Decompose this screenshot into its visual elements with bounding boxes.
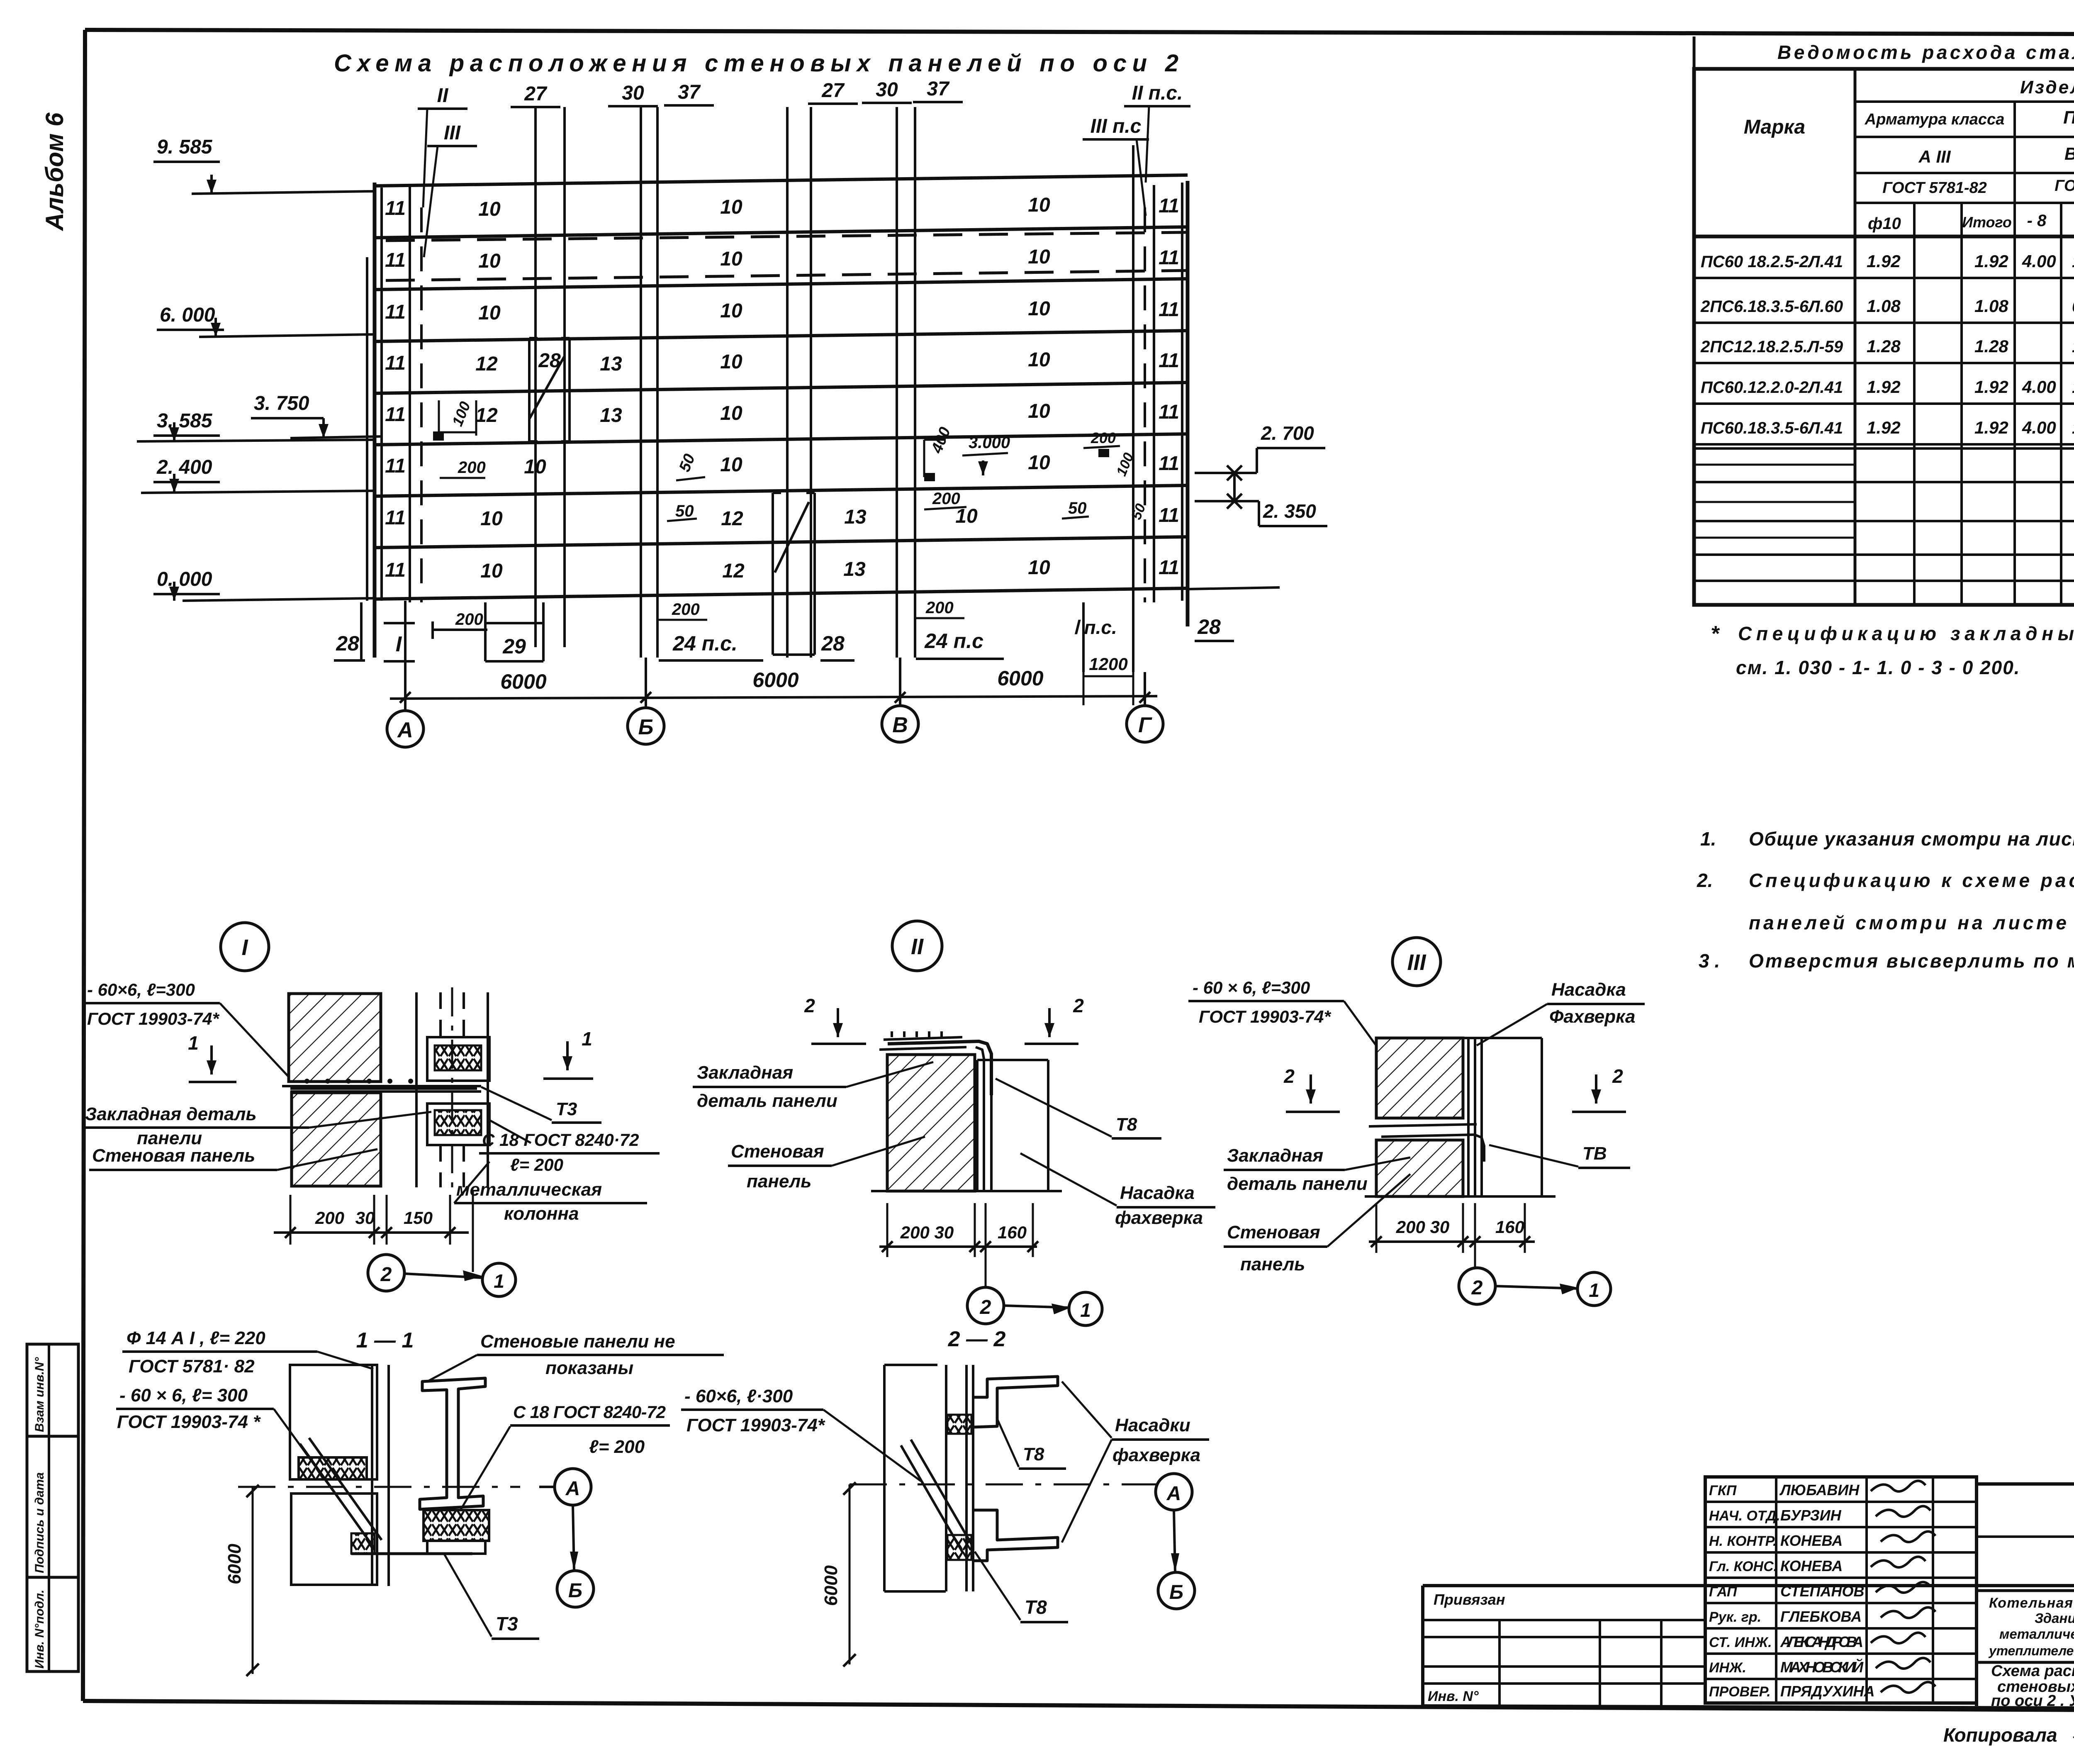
svg-text:Привязан: Привязан [1434, 1591, 1505, 1608]
svg-text:2 — 2: 2 — 2 [948, 1327, 1006, 1351]
svg-text:ГАП: ГАП [1709, 1584, 1738, 1600]
svg-text:1.28: 1.28 [1974, 336, 2008, 356]
axis В line+circle [899, 658, 901, 705]
svg-text:10: 10 [478, 302, 501, 324]
svg-text:37: 37 [927, 78, 950, 100]
node I circle [221, 923, 269, 971]
section 1-1 axis bubble A [555, 1469, 591, 1505]
svg-text:28: 28 [821, 632, 845, 655]
svg-text:100: 100 [448, 399, 474, 429]
axis Г line+circle [1144, 672, 1146, 705]
svg-text:11: 11 [1159, 557, 1179, 579]
node I dimension 200 30 150 [274, 1231, 469, 1234]
node III circle [1392, 938, 1441, 986]
svg-text:ГОСТ 5781-82: ГОСТ 5781-82 [1882, 179, 1987, 197]
table outer frame [1694, 69, 2074, 605]
node II wall panel (hatched) [887, 1055, 975, 1191]
svg-text:28: 28 [538, 350, 561, 372]
svg-text:200: 200 [458, 458, 486, 477]
svg-text:200: 200 [925, 599, 954, 617]
svg-text:10: 10 [524, 456, 546, 478]
svg-text:деталь панели: деталь панели [697, 1091, 837, 1111]
svg-text:13: 13 [843, 558, 866, 580]
svg-text:Т3: Т3 [496, 1613, 518, 1635]
svg-text:6000: 6000 [224, 1544, 245, 1584]
svg-text:ГОСТ 19903-74*: ГОСТ 19903-74* [686, 1415, 825, 1435]
svg-text:2: 2 [1471, 1277, 1483, 1299]
svg-text:10: 10 [720, 454, 742, 476]
svg-text:1.28: 1.28 [1867, 336, 1901, 356]
section 1-1 T3 channel with insulation [424, 1510, 489, 1541]
section 2-2 lower bracket T8 [973, 1510, 1058, 1561]
svg-text:АЛЕКСАНДРОВА: АЛЕКСАНДРОВА [1780, 1633, 1863, 1650]
svg-text:200: 200 [1091, 429, 1116, 446]
svg-text:3 .: 3 . [1699, 950, 1720, 972]
node I lower wall panel (hatched) [292, 1093, 381, 1186]
svg-text:1.12: 1.12 [2072, 251, 2074, 271]
svg-text:панель: панель [747, 1171, 811, 1191]
svg-text:Инв. N°подл.: Инв. N°подл. [33, 1590, 46, 1669]
section 2-2 column lines [945, 1365, 947, 1591]
svg-text:I: I [396, 632, 402, 656]
title block left cells (Привязан) [1423, 1619, 1705, 1621]
section 2-2 axis bubble A [1156, 1474, 1192, 1510]
svg-text:Фахверка: Фахверка [1549, 1006, 1635, 1027]
svg-text:10: 10 [478, 250, 501, 272]
svg-text:Прокат: Прокат [2063, 107, 2074, 128]
leader III p.s. [1137, 139, 1146, 216]
svg-text:Т3: Т3 [556, 1099, 577, 1119]
axis В column pair [896, 107, 898, 658]
svg-text:13: 13 [600, 404, 622, 426]
svg-text:ГОСТ 19903-74*: ГОСТ 19903-74* [87, 1009, 219, 1028]
node III grid bubbles 2-1 [1474, 1257, 1476, 1268]
svg-text:Б: Б [638, 715, 654, 739]
ground line 0.000 extended right [1188, 587, 1280, 589]
svg-text:1.92: 1.92 [1867, 377, 1901, 397]
svg-text:12: 12 [722, 560, 745, 582]
svg-text:Схема расположения стеновы: Схема расположения стеновых панелей по о… [334, 50, 1180, 77]
svg-text:- 60 × 6, ℓ=300: - 60 × 6, ℓ=300 [1193, 978, 1310, 997]
fachwerk column dashed line (right, node II/III p.s.) [1144, 207, 1146, 602]
svg-text:11: 11 [1159, 195, 1179, 217]
svg-text:фахверка: фахверка [1112, 1445, 1200, 1465]
svg-text:ГОСТ 5781· 82: ГОСТ 5781· 82 [129, 1356, 255, 1377]
svg-text:ПС60.12.2.0-2Л.41: ПС60.12.2.0-2Л.41 [1701, 378, 1843, 397]
vertical edges and column lines of panel layout [373, 183, 377, 658]
node II embed plate on top [879, 1047, 966, 1050]
svg-text:10: 10 [1028, 298, 1050, 320]
svg-text:Б: Б [1169, 1581, 1183, 1603]
svg-text:10: 10 [720, 402, 742, 424]
node II circle [892, 921, 942, 971]
svg-text:Изделия: Изделия [2020, 77, 2074, 97]
svg-text:4.00: 4.00 [2022, 377, 2056, 397]
svg-text:200: 200 [672, 600, 700, 619]
middle column pair (axis 30/37) [786, 107, 789, 658]
svg-text:2: 2 [980, 1296, 991, 1318]
leader II p.s. [1146, 106, 1149, 183]
svg-text:150: 150 [404, 1208, 433, 1228]
svg-text:Рук. гр.: Рук. гр. [1709, 1609, 1761, 1625]
section 1-1 centerline [238, 1486, 520, 1488]
fachwerk column dashed line (left, node II/III) [420, 207, 423, 602]
svg-text:Стеновая: Стеновая [1227, 1222, 1320, 1243]
svg-text:2. 700: 2. 700 [1261, 422, 1314, 444]
svg-text:Гл. КОНС.: Гл. КОНС. [1709, 1559, 1777, 1574]
svg-text:Марка: Марка [1744, 116, 1805, 138]
svg-text:27: 27 [821, 80, 845, 102]
svg-text:Стеновые панели не: Стеновые панели не [480, 1331, 675, 1352]
svg-text:10: 10 [1028, 400, 1050, 422]
svg-text:10: 10 [1028, 246, 1050, 268]
svg-text:6. 000: 6. 000 [160, 304, 215, 326]
svg-text:Схема расположения: Схема расположения [1991, 1662, 2074, 1680]
svg-text:13: 13 [844, 506, 867, 528]
section 2-2 upper bracket T8 [973, 1377, 1058, 1427]
node III lower wall panel (hatched) [1376, 1140, 1463, 1196]
svg-text:КОНЕВА: КОНЕВА [1780, 1532, 1843, 1549]
svg-text:Альбом 6: Альбом 6 [41, 112, 68, 231]
svg-text:0. 000: 0. 000 [157, 568, 212, 590]
svg-text:ПС60.18.3.5-6Л.41: ПС60.18.3.5-6Л.41 [1701, 419, 1843, 437]
svg-text:Закладная: Закладная [1227, 1145, 1323, 1166]
svg-text:12: 12 [475, 353, 498, 375]
svg-text:6000: 6000 [500, 670, 546, 693]
svg-text:11: 11 [385, 249, 406, 271]
svg-text:показаны: показаны [545, 1358, 633, 1378]
svg-text:2. 350: 2. 350 [1263, 500, 1316, 522]
svg-text:2: 2 [1612, 1065, 1623, 1087]
node II grid bubbles 2-1 [985, 1261, 987, 1287]
svg-text:I: I [241, 935, 248, 960]
svg-text:2.: 2. [1697, 870, 1713, 891]
left margin stamp box [27, 1344, 78, 1671]
node I column centerline [451, 987, 453, 1191]
svg-text:1.92: 1.92 [1974, 251, 2008, 271]
svg-text:Отверстия высверлить по: Отверстия высверлить по месту. [1749, 950, 2074, 972]
svg-text:1.12: 1.12 [2072, 336, 2074, 356]
svg-text:24 п.с: 24 п.с [924, 629, 983, 653]
node I anchor rod [290, 1087, 477, 1090]
svg-text:11: 11 [385, 352, 406, 374]
svg-text:СТЕПАНОВ: СТЕПАНОВ [1780, 1583, 1865, 1600]
svg-text:4.00: 4.00 [2022, 418, 2056, 437]
svg-text:200: 200 [932, 490, 960, 508]
svg-text:В: В [892, 713, 908, 737]
section 1-1 anchor diagonal rod [300, 1438, 382, 1549]
section 1-1 column flange lines [371, 1365, 373, 1586]
svg-text:1.92: 1.92 [1974, 418, 2008, 437]
svg-text:3. 750: 3. 750 [254, 392, 309, 414]
svg-text:А III: А III [1918, 147, 1951, 166]
svg-text:2: 2 [1283, 1065, 1295, 1087]
sheet border frame [85, 30, 2074, 35]
svg-text:ГОСТ 19903-74 *: ГОСТ 19903-74 * [117, 1412, 261, 1432]
svg-text:12: 12 [475, 404, 498, 426]
node I centerline down [472, 1191, 474, 1265]
svg-text:С 18 ГОСТ 8240·72: С 18 ГОСТ 8240·72 [482, 1130, 639, 1150]
svg-text:1.: 1. [1700, 828, 1716, 850]
table header horizontal lines [1855, 100, 2074, 103]
svg-text:11: 11 [1159, 247, 1179, 269]
svg-text:37: 37 [678, 81, 701, 103]
svg-text:200 30: 200 30 [1396, 1217, 1449, 1237]
svg-text:30: 30 [876, 79, 898, 101]
svg-text:В ст 3 Кп 2: В ст 3 Кп 2 [2064, 144, 2074, 163]
svg-text:Стеновая панель: Стеновая панель [92, 1145, 255, 1166]
svg-text:Н. КОНТР.: Н. КОНТР. [1709, 1533, 1777, 1549]
svg-text:1.08: 1.08 [1974, 296, 2008, 316]
svg-text:11: 11 [385, 404, 406, 426]
svg-text:10: 10 [478, 198, 501, 220]
svg-text:Общие указания смотри на: Общие указания смотри на листе 29. [1749, 828, 2074, 850]
svg-text:III: III [1407, 950, 1426, 975]
svg-text:13: 13 [600, 353, 622, 375]
node I embed plate seam [282, 1085, 481, 1087]
svg-text:2: 2 [380, 1264, 392, 1286]
svg-text:10: 10 [720, 196, 742, 218]
section 1-1 axis bubble Б [557, 1571, 594, 1607]
table data rows [1694, 277, 2074, 279]
svg-text:200: 200 [315, 1208, 344, 1228]
svg-text:панелей смотри на листе: панелей смотри на листе 29 . [1749, 912, 2074, 933]
svg-text:1: 1 [582, 1028, 592, 1050]
svg-text:2. 400: 2. 400 [156, 456, 212, 478]
svg-text:1.92: 1.92 [1974, 377, 2008, 397]
svg-text:Насадка: Насадка [1120, 1183, 1195, 1203]
svg-text:- 60 × 6, ℓ= 300: - 60 × 6, ℓ= 300 [119, 1385, 248, 1406]
leader II to column [423, 109, 427, 207]
section 1-1 lower anchor plate [351, 1552, 472, 1555]
table empty rows [1694, 447, 2074, 450]
svg-text:МАХНОВСКИЙ: МАХНОВСКИЙ [1780, 1658, 1864, 1676]
svg-text:ГОСТ 19903-74*: ГОСТ 19903-74* [1199, 1007, 1331, 1026]
svg-text:ГКП: ГКП [1709, 1483, 1737, 1498]
svg-text:Ф 14 А I , ℓ= 220: Ф 14 А I , ℓ= 220 [127, 1328, 265, 1348]
section 2-2 axis bubble Б [1158, 1572, 1195, 1609]
svg-text:Т8: Т8 [1023, 1444, 1044, 1464]
axis Б line+circle [645, 658, 647, 708]
node II dimensions 200 30 160 [879, 1245, 1037, 1248]
svg-text:Т8: Т8 [1116, 1114, 1137, 1135]
svg-text:6000: 6000 [752, 668, 798, 692]
column pair line 27 (left) [534, 107, 537, 647]
svg-text:Закладная: Закладная [697, 1062, 793, 1083]
svg-text:металлических конструкций с: металлических конструкций с [1999, 1626, 2074, 1642]
svg-text:10: 10 [480, 560, 503, 582]
svg-text:2ПС12.18.2.5.Л-59: 2ПС12.18.2.5.Л-59 [1700, 338, 1843, 356]
door opening rows 4-5 [528, 338, 531, 441]
svg-text:12: 12 [721, 508, 743, 530]
svg-text:10: 10 [720, 351, 742, 373]
title block right cells [1977, 1482, 2074, 1486]
svg-text:КОНЕВА: КОНЕВА [1780, 1557, 1843, 1574]
svg-text:10: 10 [480, 508, 503, 530]
node I metal column [415, 992, 418, 1187]
axis А line+circle [404, 601, 407, 710]
svg-text:II: II [911, 934, 924, 959]
node III upper wall panel (hatched) [1376, 1038, 1463, 1118]
svg-text:по оси 2 . Узлы I ÷ III: по оси 2 . Узлы I ÷ III [1991, 1692, 2074, 1710]
svg-text:10: 10 [1028, 557, 1050, 579]
svg-text:3. 585: 3. 585 [157, 410, 213, 432]
svg-text:30: 30 [355, 1208, 375, 1228]
svg-text:28: 28 [336, 632, 359, 655]
section 1-1 fachwerk I-beam above [420, 1378, 485, 1509]
crane/girt dashed line upper [386, 232, 1188, 241]
svg-text:10: 10 [1028, 349, 1050, 371]
svg-text:1200: 1200 [1089, 654, 1127, 674]
svg-text:колонна: колонна [504, 1204, 579, 1224]
svg-text:1: 1 [1080, 1299, 1091, 1321]
svg-text:Ведомость расхода стали на зак: Ведомость расхода стали на закладные изд… [1777, 41, 2074, 63]
svg-text:Т8: Т8 [1025, 1596, 1047, 1618]
node III fachwerk column lines [1467, 1038, 1470, 1196]
svg-text:ЛЮБАВИН: ЛЮБАВИН [1779, 1481, 1860, 1498]
svg-text:ТВ: ТВ [1582, 1143, 1607, 1164]
svg-text:ф10: ф10 [1868, 214, 1901, 233]
svg-text:3.000: 3.000 [969, 434, 1010, 452]
svg-text:1.12: 1.12 [2072, 418, 2074, 437]
title block outer [1423, 1584, 2074, 1587]
svg-text:11: 11 [1159, 299, 1179, 321]
panel layout: horizontal row lines [375, 175, 1188, 186]
svg-text:Закладная деталь: Закладная деталь [85, 1104, 257, 1124]
svg-text:11: 11 [1159, 350, 1179, 372]
svg-text:Г: Г [1138, 713, 1152, 737]
svg-text:1.12: 1.12 [2072, 377, 2074, 397]
svg-text:Копировала: Копировала [1943, 1724, 2057, 1746]
svg-text:ГОСТ 19903-74*: ГОСТ 19903-74* [2055, 177, 2074, 195]
svg-text:11: 11 [385, 301, 406, 323]
svg-text:Здание из легких: Здание из легких [2035, 1611, 2074, 1626]
svg-text:Котельная с 4 котлами ДЕ-10-14: Котельная с 4 котлами ДЕ-10-14ГМ [1989, 1595, 2074, 1611]
svg-text:11: 11 [385, 455, 406, 477]
svg-text:Ⅰ п.с.: Ⅰ п.с. [1073, 616, 1117, 638]
svg-text:- 8: - 8 [2027, 212, 2047, 230]
svg-text:III п.с: III п.с [1091, 115, 1142, 137]
svg-text:А: А [1166, 1483, 1181, 1505]
svg-text:11: 11 [385, 507, 406, 529]
svg-text:10: 10 [720, 248, 742, 270]
svg-text:200 30: 200 30 [900, 1223, 954, 1242]
svg-text:Инв. N°: Инв. N° [1428, 1688, 1479, 1704]
svg-text:Насадка: Насадка [1551, 979, 1626, 1000]
section 2-2 panel edge line [883, 1365, 886, 1591]
svg-text:деталь панели: деталь панели [1227, 1174, 1368, 1194]
svg-text:6000: 6000 [821, 1565, 841, 1606]
svg-text:1.92: 1.92 [1867, 251, 1901, 271]
svg-text:Стеновая: Стеновая [731, 1141, 824, 1162]
leader III to column [424, 146, 438, 257]
table header vertical lines [1854, 69, 1857, 605]
section 1-1 upper anchor x-box [299, 1457, 367, 1479]
svg-text:27: 27 [524, 83, 548, 105]
section 1-1 lower panel outline [291, 1494, 377, 1585]
svg-text:0.56: 0.56 [2072, 296, 2074, 316]
svg-text:ℓ= 200: ℓ= 200 [510, 1155, 563, 1174]
svg-text:Подпись и дата: Подпись и дата [33, 1472, 46, 1573]
svg-text:1.92: 1.92 [1867, 418, 1901, 437]
signature table [1705, 1477, 1977, 1703]
svg-text:III: III [444, 122, 461, 144]
svg-text:Спецификацию закладных изде: Спецификацию закладных изделий на одну п… [1738, 623, 2074, 644]
svg-text:10: 10 [1028, 452, 1050, 474]
svg-text:11: 11 [385, 559, 406, 581]
svg-text:ПС60 18.2.5-2Л.41: ПС60 18.2.5-2Л.41 [1701, 253, 1843, 271]
node I upper wall panel (hatched) [289, 994, 381, 1082]
svg-text:11: 11 [1159, 453, 1179, 475]
svg-text:*: * [1711, 622, 1720, 646]
node III dimensions 200 30 160 [1369, 1240, 1535, 1243]
svg-text:2: 2 [804, 995, 815, 1016]
axis Б column pair [640, 107, 642, 658]
svg-text:утеплителем из минераловатных: утеплителем из минераловатных плит [1988, 1643, 2074, 1658]
svg-text:4.00: 4.00 [2022, 251, 2056, 271]
svg-text:II: II [437, 85, 449, 107]
svg-text:см. 1. 030 - 1- 1. 0 - 3 -: см. 1. 030 - 1- 1. 0 - 3 - 0 200. [1736, 657, 2020, 678]
svg-text:металлическая: металлическая [456, 1179, 602, 1200]
svg-text:28: 28 [1197, 615, 1221, 638]
svg-text:1: 1 [494, 1270, 504, 1292]
svg-text:НАЧ. ОТД.: НАЧ. ОТД. [1709, 1508, 1780, 1524]
svg-text:Насадки: Насадки [1115, 1415, 1190, 1435]
section 2-2 diagonal rod [901, 1440, 971, 1553]
svg-text:2: 2 [1073, 995, 1084, 1016]
svg-text:БУРЗИН: БУРЗИН [1780, 1507, 1842, 1524]
door opening rows 7-8 [772, 493, 774, 655]
svg-text:Б: Б [568, 1580, 582, 1602]
node II fachwerk cap (bent plate) [888, 1041, 991, 1095]
svg-text:1: 1 [1589, 1279, 1599, 1301]
svg-text:ИНЖ.: ИНЖ. [1709, 1660, 1746, 1676]
svg-text:С 18 ГОСТ 8240-72: С 18 ГОСТ 8240-72 [513, 1402, 666, 1422]
svg-text:11: 11 [385, 197, 406, 219]
svg-text:50: 50 [1068, 499, 1087, 517]
svg-text:200: 200 [455, 610, 483, 629]
svg-text:Итого: Итого [1962, 214, 2012, 231]
node I grid bubbles 2-1 [472, 1265, 474, 1272]
svg-text:50: 50 [675, 502, 694, 520]
svg-text:29: 29 [502, 635, 526, 658]
svg-text:панель: панель [1240, 1254, 1305, 1274]
svg-text:24 п.с.: 24 п.с. [672, 632, 738, 655]
svg-text:11: 11 [1159, 504, 1179, 526]
svg-text:ПРЯДУХИНА: ПРЯДУХИНА [1780, 1683, 1875, 1700]
svg-text:1.08: 1.08 [1867, 296, 1901, 316]
svg-text:II п.с.: II п.с. [1132, 82, 1183, 104]
right edge double [1181, 183, 1183, 601]
svg-text:160: 160 [1495, 1217, 1524, 1237]
node I T3 connector (channel with insulation) [427, 1037, 489, 1081]
column pair near Г (1200 bay) [1082, 602, 1085, 672]
node III horizontal seam plates [1369, 1124, 1477, 1126]
svg-text:2ПС6.18.3.5-6Л.60: 2ПС6.18.3.5-6Л.60 [1700, 297, 1843, 316]
svg-text:ГЛЕБКОВА: ГЛЕБКОВА [1780, 1608, 1862, 1625]
bottom dimension line [390, 696, 1157, 699]
svg-text:ПРОВЕР.: ПРОВЕР. [1709, 1684, 1771, 1700]
svg-text:1 — 1: 1 — 1 [356, 1328, 414, 1352]
svg-text:10: 10 [955, 505, 978, 527]
section 1-1 upper panel outline [290, 1365, 377, 1479]
svg-text:СТ. ИНЖ.: СТ. ИНЖ. [1709, 1635, 1772, 1650]
svg-text:Арматура класса: Арматура класса [1865, 111, 2005, 128]
svg-text:10: 10 [720, 300, 742, 322]
svg-text:А: А [397, 718, 413, 742]
node II column outline [976, 1060, 979, 1191]
svg-text:1: 1 [188, 1032, 199, 1054]
